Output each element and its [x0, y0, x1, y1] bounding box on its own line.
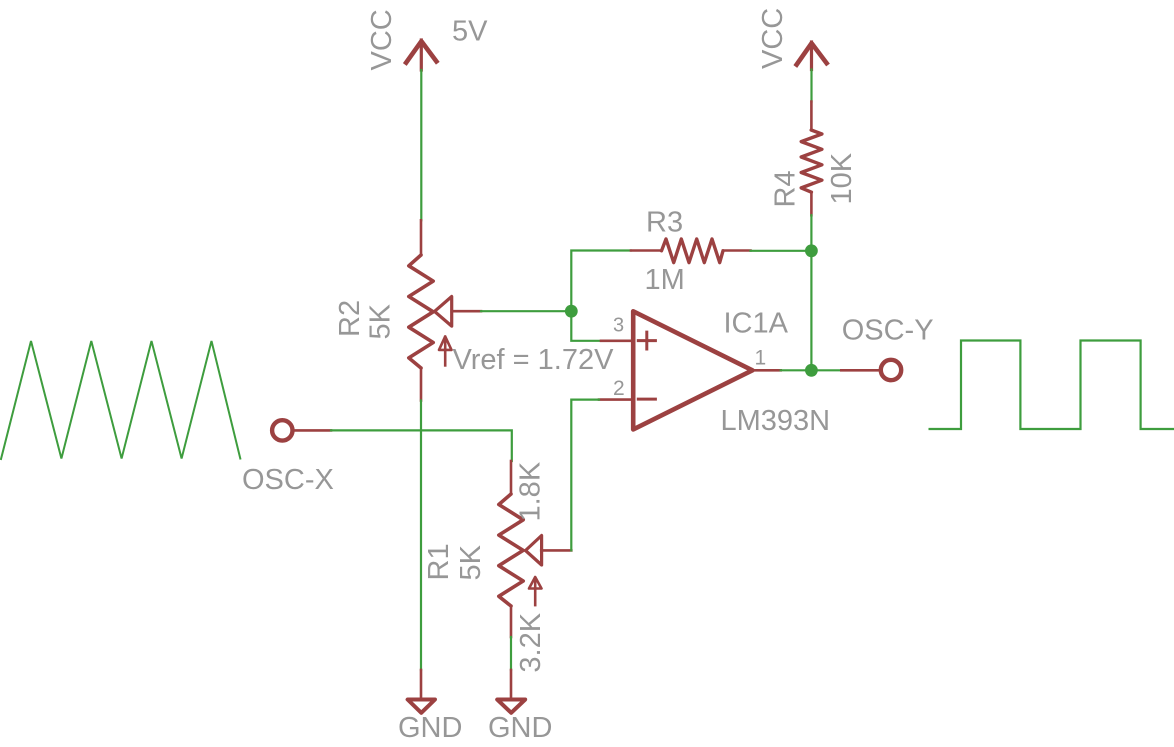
- square wave (OSC-Y output waveform): [930, 341, 1174, 430]
- wire VCC to R2 pin 1: [420, 70, 422, 220]
- potentiometer R2 5K: [409, 220, 433, 400]
- svg-text:Vref = 1.72V: Vref = 1.72V: [453, 344, 615, 376]
- port OSC-X: [272, 420, 331, 440]
- triangle wave (OSC-X input waveform): [1, 341, 240, 459]
- svg-text:R4: R4: [770, 170, 802, 207]
- wire R2 wiper to node A: [481, 310, 571, 312]
- svg-text:3.2K: 3.2K: [515, 612, 547, 672]
- R2 trim adjust arrow: [439, 336, 452, 365]
- svg-text:1M: 1M: [645, 264, 685, 296]
- svg-text:10K: 10K: [826, 152, 858, 204]
- svg-text:1.8K: 1.8K: [515, 461, 547, 521]
- svg-text:5V: 5V: [452, 16, 488, 48]
- ground GND1: [408, 670, 435, 713]
- svg-text:R3: R3: [646, 207, 683, 239]
- ground GND2: [497, 670, 525, 713]
- wire R4 bottom through node B to node C: [810, 215, 812, 370]
- wire R1 bottom to GND2: [510, 637, 512, 670]
- wire node A up to R3 left: [571, 251, 631, 312]
- svg-text:3: 3: [613, 314, 624, 336]
- svg-text:LM393N: LM393N: [721, 405, 831, 437]
- junction node B: [805, 244, 818, 257]
- svg-text:GND: GND: [488, 712, 552, 744]
- R1 trim adjust arrow: [529, 577, 542, 605]
- wire VCC2 to R4: [810, 70, 812, 102]
- svg-text:OSC-X: OSC-X: [242, 464, 334, 496]
- potentiometer R1 5K: [499, 461, 523, 637]
- R1 wiper arrow: [526, 536, 572, 566]
- resistor R4 10K: [801, 102, 822, 216]
- wire node A down to op-amp pin 3: [571, 311, 601, 341]
- svg-text:OSC-Y: OSC-Y: [842, 315, 934, 347]
- svg-text:VCC: VCC: [366, 9, 398, 70]
- svg-text:GND: GND: [398, 712, 462, 744]
- wire OSC-X to R1 top: [331, 430, 512, 461]
- resistor R3 1M: [631, 239, 751, 263]
- svg-text:5K: 5K: [365, 303, 397, 339]
- svg-text:R2: R2: [334, 300, 366, 337]
- svg-text:IC1A: IC1A: [724, 308, 789, 340]
- supply symbol VCC (right, above R4): [795, 42, 828, 70]
- svg-text:R1: R1: [423, 543, 455, 580]
- wire node C to OSC-Y pin: [811, 369, 841, 371]
- junction node C: [805, 364, 818, 377]
- wire op-amp output to node C: [781, 369, 812, 371]
- R2 wiper arrow: [435, 297, 482, 327]
- wire R3 right to node B: [751, 250, 812, 252]
- svg-text:2: 2: [613, 377, 625, 400]
- supply symbol VCC (left, above R2): [405, 40, 438, 70]
- wire R1 wiper to op-amp pin 2: [571, 400, 599, 551]
- svg-text:1: 1: [755, 347, 767, 370]
- svg-text:VCC: VCC: [757, 8, 789, 69]
- port OSC-Y: [841, 360, 901, 380]
- svg-text:5K: 5K: [455, 544, 487, 580]
- op-amp IC1A LM393N: [599, 311, 781, 429]
- junction node A: [565, 305, 578, 318]
- wire R2 bottom to GND1: [420, 401, 422, 671]
